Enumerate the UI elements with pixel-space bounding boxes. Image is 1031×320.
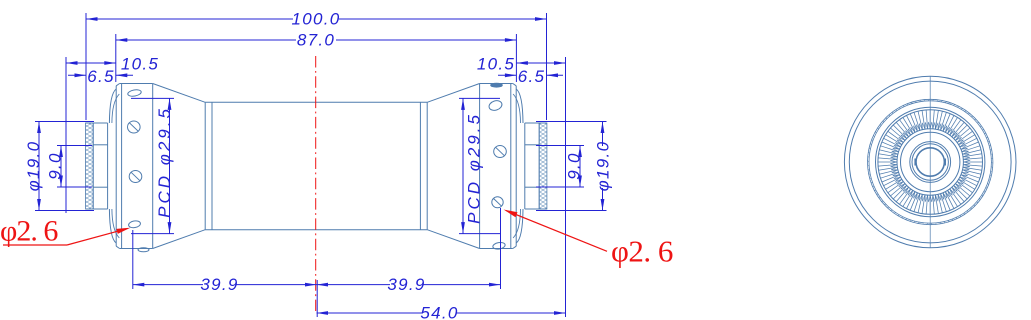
right axle cone nut xyxy=(525,123,547,209)
right flange disc xyxy=(480,84,517,249)
right spoke hole edge-on top xyxy=(491,83,503,87)
left locknut knurled band xyxy=(86,123,94,209)
left spoke hole 1 xyxy=(127,89,141,97)
dimension 6.5 left xyxy=(68,67,133,86)
dimension 10.5 right xyxy=(477,55,566,74)
left axle cone nut xyxy=(86,123,108,209)
svg-text:φ2. 6: φ2. 6 xyxy=(611,234,673,269)
right cone (barrel to flange taper) xyxy=(427,84,479,249)
red label φ2.6 right xyxy=(504,210,673,269)
left shell fillet xyxy=(109,89,119,243)
left spoke hole 4 xyxy=(128,220,141,229)
right spoke hole 1 xyxy=(488,99,503,112)
left cone (flange to barrel taper) xyxy=(153,84,206,249)
extension line left shell end xyxy=(115,34,117,82)
dimension 9.0 left xyxy=(46,146,93,188)
right shell fillet xyxy=(513,89,523,243)
svg-text:φ19.0: φ19.0 xyxy=(24,141,43,192)
svg-text:10.5: 10.5 xyxy=(477,55,515,74)
right locknut knurled band xyxy=(539,123,547,209)
dimension 87.0 xyxy=(116,31,517,50)
extension line right axle end xyxy=(565,57,567,317)
left spoke hole 5 edge-on xyxy=(138,248,149,252)
svg-text:54.0: 54.0 xyxy=(420,304,458,320)
extension line left locknut face xyxy=(85,13,87,120)
svg-text:PCD φ29.5: PCD φ29.5 xyxy=(155,106,174,218)
left spoke hole 3 xyxy=(129,171,142,183)
svg-text:39.9: 39.9 xyxy=(200,275,238,294)
dimension PCD φ29.5 left xyxy=(131,98,174,233)
svg-text:φ2. 6: φ2. 6 xyxy=(0,215,58,248)
dimension 54.0 xyxy=(317,304,566,320)
extension line right locknut face xyxy=(546,13,548,120)
dimension 39.9 left xyxy=(133,275,317,294)
hub barrel shell xyxy=(205,102,427,229)
svg-text:9.0: 9.0 xyxy=(46,152,65,180)
svg-text:10.5: 10.5 xyxy=(121,55,159,74)
right spoke hole 2 xyxy=(494,146,507,158)
svg-text:PCD φ29.5: PCD φ29.5 xyxy=(465,112,484,224)
svg-text:87.0: 87.0 xyxy=(297,31,335,50)
dimension 100.0 xyxy=(86,10,547,29)
extension line left axle end xyxy=(65,57,67,213)
dimension 39.9 right xyxy=(317,275,501,294)
right spoke hole 4 xyxy=(492,242,505,250)
svg-text:100.0: 100.0 xyxy=(291,10,340,29)
end view knurled ring xyxy=(878,110,983,215)
dimension 6.5 right xyxy=(498,67,563,86)
svg-text:φ19.0: φ19.0 xyxy=(594,141,613,192)
svg-text:6.5: 6.5 xyxy=(87,67,115,86)
extension line left flange center xyxy=(132,230,134,289)
dimension 10.5 left xyxy=(66,55,159,74)
right spoke hole 3 xyxy=(492,197,503,208)
dimension φ19.0 left xyxy=(24,122,94,211)
end view concentric circles xyxy=(844,76,1016,248)
extension line hub centerline bottom xyxy=(316,280,318,317)
svg-text:9.0: 9.0 xyxy=(565,152,584,180)
end view axle wrench flats xyxy=(915,159,945,166)
dimension PCD φ29.5 right xyxy=(459,98,500,233)
svg-text:6.5: 6.5 xyxy=(518,67,546,86)
left spoke hole 2 xyxy=(128,121,141,133)
dimension φ19.0 right xyxy=(536,122,613,211)
dimension 9.0 right xyxy=(536,146,584,188)
extension line right shell end xyxy=(515,34,517,82)
left flange disc xyxy=(116,84,153,249)
end view vertical centerline xyxy=(929,76,931,248)
extension line right flange center xyxy=(500,208,502,289)
svg-text:39.9: 39.9 xyxy=(387,275,425,294)
red label φ2.6 left xyxy=(0,215,131,248)
red centerline xyxy=(315,56,317,311)
